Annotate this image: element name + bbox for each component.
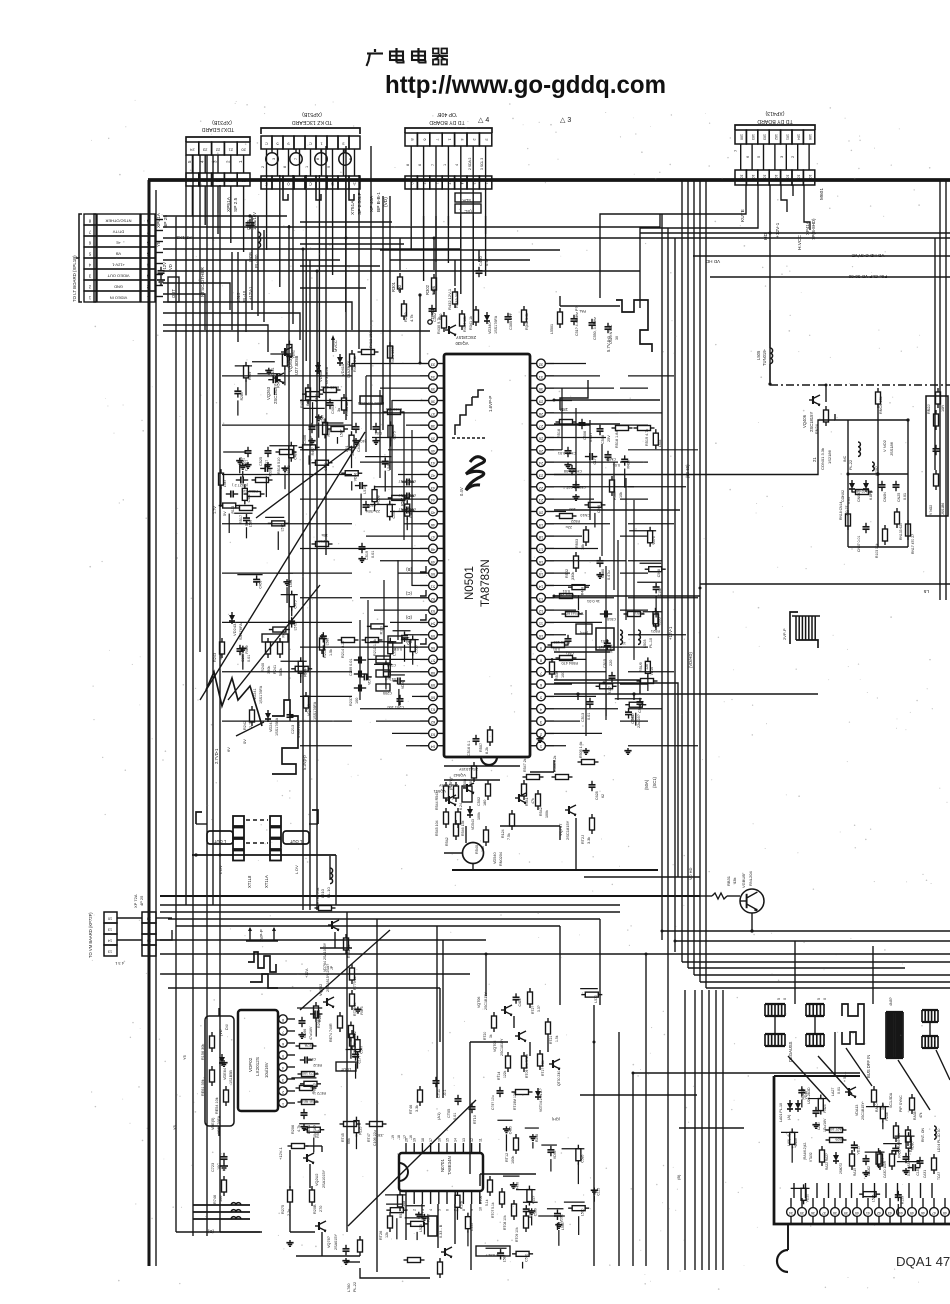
svg-text:8: 8 <box>410 138 415 141</box>
svg-text:44: 44 <box>430 498 435 503</box>
wires under N0701 <box>360 1204 471 1278</box>
svg-text:R547 2k: R547 2k <box>523 758 527 772</box>
svg-text:22u: 22u <box>566 525 572 529</box>
IC N0701 bottom pins <box>405 1191 483 1211</box>
resistor R302 620k <box>425 274 437 295</box>
svg-text:4: 4 <box>429 1209 433 1211</box>
svg-text:8: 8 <box>316 158 320 160</box>
svg-text:R547: R547 <box>276 379 280 387</box>
svg-text:62: 62 <box>430 720 435 725</box>
svg-text:6: 6 <box>539 683 542 688</box>
svg-text:R405 430: R405 430 <box>386 407 402 411</box>
svg-text:C475: C475 <box>294 600 298 608</box>
svg-text:1k 0.01: 1k 0.01 <box>586 599 600 604</box>
svg-text:R219: R219 <box>403 312 408 322</box>
svg-text:1.5k: 1.5k <box>555 1035 559 1042</box>
svg-text:CON02: CON02 <box>841 490 845 502</box>
svg-text:R173: R173 <box>379 626 383 634</box>
svg-text:2SA1015Y: 2SA1015Y <box>459 767 478 772</box>
transistor VQ542 2SA1015Y <box>453 767 478 793</box>
svg-text:RA10: RA10 <box>875 1103 879 1112</box>
clutter components zone B right of IC <box>568 429 666 726</box>
resistor R301 200 <box>391 273 403 293</box>
label 18M <box>559 380 588 412</box>
svg-text:0.01: 0.01 <box>587 713 591 720</box>
svg-text:4: 4 <box>539 708 542 713</box>
svg-text:R540: R540 <box>475 845 479 854</box>
svg-text:30: 30 <box>538 387 543 392</box>
svg-text:7: 7 <box>431 164 435 166</box>
wires bottom right pin drops region <box>619 954 950 1042</box>
svg-text:R781 1k: R781 1k <box>347 944 351 958</box>
svg-text:C115: C115 <box>596 1188 600 1196</box>
svg-text:2: 2 <box>282 1090 284 1094</box>
svg-text:22u/35V: 22u/35V <box>365 509 380 513</box>
board pin row circles <box>787 1198 950 1224</box>
svg-text:37: 37 <box>822 1211 826 1215</box>
svg-text:2 SDA 2: 2 SDA 2 <box>468 157 472 170</box>
svg-text:21: 21 <box>812 457 817 462</box>
svg-text:R238: R238 <box>885 1112 889 1120</box>
IC U-N0501 TA8783N body <box>444 354 530 765</box>
svg-text:100k: 100k <box>545 810 549 818</box>
svg-text:3: 3 <box>148 928 150 932</box>
board inner components cluster <box>779 1072 941 1180</box>
svg-text:1: 1 <box>305 166 309 168</box>
resistor R316 110 <box>226 489 265 498</box>
connector OP40B top row <box>405 128 492 146</box>
svg-text:C525: C525 <box>259 457 263 466</box>
svg-text:VQ76?: VQ76? <box>327 1236 331 1248</box>
hook wires under XP51B <box>283 189 354 200</box>
svg-text:R208: R208 <box>318 539 328 544</box>
svg-text:(50-60): (50-60) <box>685 464 690 478</box>
svg-text:L533: L533 <box>658 439 662 447</box>
component L5401 TCR1023 <box>358 396 384 405</box>
svg-text:5: 5 <box>349 158 353 160</box>
svg-text:L555: L555 <box>470 1223 474 1231</box>
svg-text:1: 1 <box>443 164 447 166</box>
svg-text:Y5: Y5 <box>156 241 161 247</box>
svg-text:3: 3 <box>146 274 149 279</box>
svg-text:VD95: VD95 <box>657 617 661 626</box>
connector XPL1B pin number boxes <box>76 214 155 302</box>
resistor R507 8.2k C516 0.1 <box>467 726 493 756</box>
svg-text:(VD: (VD <box>219 1029 223 1036</box>
svg-text:17: 17 <box>429 1138 433 1142</box>
svg-text:VQ430: VQ430 <box>455 341 469 346</box>
svg-text:330k: 330k <box>571 572 575 580</box>
svg-text:C566: C566 <box>638 705 642 713</box>
wires mid-bottom horizontals <box>580 1042 950 1128</box>
svg-text:R214 8.2k: R214 8.2k <box>341 641 345 658</box>
resistor R407 21k <box>350 350 358 372</box>
svg-text:10R: 10R <box>941 405 945 412</box>
svg-text:0.01: 0.01 <box>837 1087 841 1094</box>
svg-text:H.VCC: H.VCC <box>797 235 803 250</box>
svg-text:R587: R587 <box>400 498 404 506</box>
svg-text:PAL: PAL <box>579 309 586 313</box>
svg-text:VD243: VD243 <box>269 720 273 732</box>
svg-text:L510: L510 <box>320 888 325 898</box>
svg-text:34: 34 <box>789 1211 793 1215</box>
svg-text:C152: C152 <box>658 588 662 596</box>
capacitor C530 22u/35V <box>363 501 381 513</box>
svg-text:TD DY BOARD: TD DY BOARD <box>757 118 793 124</box>
resistor R421 100k <box>388 342 396 364</box>
svg-text:L5501: L5501 <box>550 324 554 334</box>
label CON01 3.3k 1S2186 <box>820 448 832 470</box>
svg-text:KUTE: KUTE <box>740 209 746 222</box>
wires IC left pin stubs extensions <box>352 364 420 746</box>
svg-text:INC: INC <box>843 455 847 462</box>
svg-text:36: 36 <box>811 1211 815 1215</box>
resistor RN133 620 <box>895 508 904 540</box>
svg-text:13: 13 <box>538 597 543 602</box>
svg-text:10: 10 <box>108 917 112 921</box>
svg-text:LOUT: LOUT <box>340 1067 351 1071</box>
svg-text:14: 14 <box>454 1138 458 1142</box>
svg-text:21: 21 <box>228 179 233 184</box>
svg-text:57: 57 <box>430 658 435 663</box>
svg-text:39: 39 <box>844 1211 848 1215</box>
svg-text:VQ542: VQ542 <box>453 773 466 778</box>
svg-text:REJ2: REJ2 <box>313 1063 322 1067</box>
svg-text:C529 NTSC: C529 NTSC <box>609 324 613 344</box>
svg-text:VDF02: VDF02 <box>248 1057 253 1072</box>
box OUT <box>168 277 179 302</box>
svg-text:5: 5 <box>777 998 781 1000</box>
resistor R214 8.2k and R211 1.8k <box>338 638 383 659</box>
svg-text:-19: -19 <box>391 1135 395 1140</box>
svg-text:RT46: RT46 <box>409 1105 413 1114</box>
svg-text:101: 101 <box>763 175 767 181</box>
svg-text:1.5k: 1.5k <box>329 649 333 656</box>
clutter zone G between bottom ICs <box>291 1006 363 1152</box>
svg-text:3: 3 <box>779 155 784 158</box>
svg-text:R517: R517 <box>399 1210 403 1218</box>
caps C580 0.58 row2 <box>564 465 582 475</box>
svg-text:L576: L576 <box>280 524 284 532</box>
svg-text:10u/16V: 10u/16V <box>264 1062 269 1078</box>
svg-text:6: 6 <box>446 1209 450 1211</box>
svg-text:C305 1VF: C305 1VF <box>509 312 513 330</box>
svg-text:23: 23 <box>202 148 207 153</box>
resistor R508 560 <box>463 762 477 788</box>
svg-text:VD62: VD62 <box>291 350 295 359</box>
resistor R502 330k C580 0.47u <box>563 552 611 593</box>
svg-text:R237: R237 <box>349 697 353 706</box>
resistor R213 1.5k <box>320 634 334 658</box>
svg-text:34: 34 <box>147 939 151 943</box>
svg-text:R206: R206 <box>291 1125 295 1134</box>
component C551 group small box <box>553 624 592 655</box>
svg-text:C291: C291 <box>881 1158 885 1166</box>
svg-text:TO LT BOARD (XPL1B): TO LT BOARD (XPL1B) <box>72 255 77 302</box>
svg-text:7: 7 <box>146 230 149 235</box>
svg-text:LX2012S: LX2012S <box>255 1057 260 1076</box>
svg-text:RT1? 6.8k: RT1? 6.8k <box>541 1060 545 1076</box>
svg-text:3: 3 <box>148 950 150 954</box>
connector XPL1B label boxes <box>94 214 140 302</box>
svg-text:2.7VD-1: 2.7VD-1 <box>214 748 219 764</box>
svg-text:2: 2 <box>88 285 91 290</box>
resistor RN17 470 27 <box>906 520 916 554</box>
svg-text:L519: L519 <box>363 486 367 494</box>
resistor R518 1.84 R519 4.7k pair <box>612 426 655 449</box>
resistor R518 mid right <box>556 420 577 439</box>
svg-text:R483: R483 <box>631 713 635 721</box>
clutter zone H below N0701 <box>385 1191 474 1246</box>
svg-text:RT20: RT20 <box>483 1032 487 1040</box>
svg-text:1: 1 <box>88 296 91 301</box>
svg-text:13: 13 <box>462 1138 466 1142</box>
crystal filter cluster above IC right <box>550 296 620 344</box>
svg-text:4P 25: 4P 25 <box>139 895 144 906</box>
caps CN0N CN25 0.01 <box>879 481 908 502</box>
resistor R237 100 C205 <box>349 684 392 706</box>
wires bottom-left transistor cluster <box>290 1146 360 1256</box>
svg-text:SP 2.5: SP 2.5 <box>233 197 239 212</box>
svg-text:6: 6 <box>88 241 91 246</box>
svg-text:100k: 100k <box>511 1156 515 1164</box>
svg-text:3u: 3u <box>337 408 341 412</box>
svg-text:RE54 10k: RE54 10k <box>215 1097 219 1114</box>
svg-text:R5U9: R5U9 <box>639 662 643 672</box>
wires lower mid connections <box>160 855 600 1232</box>
resistor R341 1k diode VD340 <box>469 306 498 334</box>
comb leader diagonals <box>788 1048 950 1110</box>
resistor R540 18k transistor VQ540 <box>463 826 504 866</box>
label 16V 330u C408 <box>345 443 361 456</box>
svg-text:17: 17 <box>538 547 543 552</box>
svg-text:104: 104 <box>797 175 801 181</box>
capacitor C302 680 / C022 <box>429 305 444 322</box>
svg-text:5: 5 <box>146 252 149 257</box>
svg-text:XT1LA: XT1LA <box>264 875 269 888</box>
svg-text:36: 36 <box>430 399 435 404</box>
svg-text:13: 13 <box>108 950 112 954</box>
svg-text:XT1L8: XT1L8 <box>247 875 252 888</box>
svg-text:C51? 4.43MHz P?: C51? 4.43MHz P? <box>575 307 579 336</box>
svg-text:103: 103 <box>751 175 755 181</box>
svg-text:RN133 620: RN133 620 <box>899 523 903 540</box>
svg-text:2SA1015Y: 2SA1015Y <box>322 1169 326 1188</box>
svg-text:C506: C506 <box>583 431 587 440</box>
svg-text:6: 6 <box>146 241 149 246</box>
label MVCC arrow <box>331 335 338 352</box>
label Y5 left <box>172 1054 187 1130</box>
svg-text:2: 2 <box>790 155 795 158</box>
svg-text:RT26: RT26 <box>379 1231 383 1240</box>
svg-text:VD543: VD543 <box>471 819 475 830</box>
svg-text:46: 46 <box>430 523 435 528</box>
svg-text:12: 12 <box>538 609 543 614</box>
resistor RN2J 10R far right <box>927 388 945 414</box>
components right of VDF02 pins <box>296 1002 327 1138</box>
svg-text:LA01 PL-10: LA01 PL-10 <box>779 1103 783 1122</box>
resistor RT26 12k <box>379 1212 393 1240</box>
svg-text:(C): (C) <box>405 591 412 596</box>
svg-text:VDA13: VDA13 <box>855 1105 859 1116</box>
svg-text:L567: L567 <box>321 415 325 423</box>
svg-text:8.2k: 8.2k <box>485 747 489 754</box>
svg-text:7: 7 <box>294 158 298 160</box>
wires IC left pins long to bundle <box>222 376 352 746</box>
waveform square pulse 5.3Vp-p <box>272 700 307 774</box>
svg-text:0.01: 0.01 <box>563 589 570 593</box>
svg-text:VQE62: VQE62 <box>319 984 323 996</box>
connector XP31B top row <box>186 137 250 155</box>
box outline around VDF02 left components <box>205 1016 234 1126</box>
component L503 PL-10 <box>638 630 653 648</box>
svg-text:0: 0 <box>823 998 827 1000</box>
svg-text:R166: R166 <box>318 1014 322 1022</box>
crystal block dashes and wires <box>192 810 336 857</box>
svg-text:PL-22: PL-22 <box>849 460 853 470</box>
svg-text:RN0204: RN0204 <box>499 852 503 866</box>
svg-text:R544 R543: R544 R543 <box>435 792 439 810</box>
svg-text:2SC1815Y: 2SC1815Y <box>456 335 476 340</box>
svg-text:R521: R521 <box>651 629 660 633</box>
svg-text:TRF5418D: TRF5418D <box>565 611 584 615</box>
svg-text:1SS176FA: 1SS176FA <box>275 717 279 736</box>
svg-text:L547: L547 <box>223 479 227 487</box>
IC N0501 internal staircase waveform 1.6VP-P <box>452 390 493 438</box>
wires top connector drops <box>192 175 485 398</box>
svg-text:R285: R285 <box>240 392 244 400</box>
svg-text:43: 43 <box>430 486 435 491</box>
svg-text:2: 2 <box>413 1209 417 1211</box>
svg-text:C210: C210 <box>315 394 319 402</box>
svg-text:18: 18 <box>538 535 543 540</box>
svg-text:C205: C205 <box>383 691 392 695</box>
svg-text:47: 47 <box>430 535 435 540</box>
svg-text:TA8E34N: TA8E34N <box>447 1156 452 1175</box>
svg-text:4.7k: 4.7k <box>297 1125 301 1132</box>
svg-text:R522: R522 <box>571 519 580 523</box>
connector KP72F boxes <box>104 894 172 966</box>
svg-text:DQA1 47: DQA1 47 <box>896 1254 950 1269</box>
ground symbols scattered <box>220 438 909 1264</box>
transistor VQ706 cluster <box>477 988 541 1040</box>
svg-text:180: 180 <box>483 800 487 806</box>
waveform gate pulse shape <box>842 1004 864 1044</box>
resistor R529 100 <box>548 640 571 648</box>
svg-text:-18: -18 <box>397 1135 401 1140</box>
svg-text:60: 60 <box>430 695 435 700</box>
resistor RN24 3.3k <box>815 406 829 434</box>
svg-text:R301: R301 <box>391 281 396 292</box>
clutter components zone E board <box>781 1086 920 1216</box>
resistor R530 100 vertical <box>550 658 566 680</box>
svg-text:CM0B: CM0B <box>605 457 616 461</box>
svg-text:△ 3: △ 3 <box>560 117 571 124</box>
leader line diagonal 3 <box>228 585 320 700</box>
svg-text:4: 4 <box>88 263 91 268</box>
svg-text:MVCC: MVCC <box>333 340 338 352</box>
svg-text:24: 24 <box>538 461 543 466</box>
svg-text:R503: R503 <box>575 539 579 548</box>
svg-text:R448: R448 <box>580 587 584 595</box>
capacitor C527 label <box>231 477 272 488</box>
svg-text:27: 27 <box>538 424 543 429</box>
svg-text:TD DY BOARD: TD DY BOARD <box>429 119 465 125</box>
svg-text:15: 15 <box>446 1138 450 1142</box>
svg-text:M601: M601 <box>819 188 825 200</box>
svg-text:R450: R450 <box>281 629 285 637</box>
svg-text:RE7B: RE7B <box>304 1043 314 1047</box>
svg-text:R497: R497 <box>311 447 315 455</box>
svg-text:R434 12k: R434 12k <box>463 316 467 332</box>
svg-text:VTA32: VTA32 <box>809 1152 813 1162</box>
svg-text:100: 100 <box>355 698 359 704</box>
svg-text:C585: C585 <box>580 1155 584 1163</box>
svg-text:(SC: (SC <box>464 209 471 214</box>
waveform small pulses near 1VP-P <box>248 952 278 988</box>
svg-text:4.7k: 4.7k <box>409 314 414 322</box>
waveform staircase mid 5.7V <box>606 300 652 352</box>
svg-text:C406: C406 <box>303 435 307 444</box>
svg-text:/ SDA: / SDA <box>462 198 473 203</box>
svg-text:R558: R558 <box>377 495 381 503</box>
clutter components zone F midleft lower <box>219 452 291 550</box>
svg-text:7: 7 <box>88 230 91 235</box>
IC N0701 top pin labels <box>405 1138 483 1153</box>
svg-text:C582: C582 <box>324 463 328 471</box>
svg-text:RA27 10k: RA27 10k <box>829 1127 844 1131</box>
svg-text:5.1k: 5.1k <box>485 1199 489 1206</box>
svg-text:C568: C568 <box>657 569 661 577</box>
svg-text:JSS186: JSS186 <box>889 441 894 456</box>
svg-text:19: 19 <box>413 1138 417 1142</box>
svg-text:0.47u: 0.47u <box>607 570 611 580</box>
svg-text:R258: R258 <box>535 1134 539 1142</box>
svg-text:40: 40 <box>430 449 435 454</box>
svg-text:CH20 0.58: CH20 0.58 <box>564 469 582 473</box>
svg-text:20: 20 <box>538 510 543 515</box>
svg-text:200: 200 <box>397 284 402 292</box>
transistor VQ263 2SC1815Y <box>266 373 284 404</box>
svg-text:V NO2: V NO2 <box>929 505 933 515</box>
coil L5102 right small <box>872 462 879 476</box>
resistor ladder RT06 RT07 RT08 RT09 <box>479 1174 536 1242</box>
wire dash-dot horizontal <box>770 384 950 386</box>
svg-text:C508: C508 <box>601 435 605 444</box>
svg-text:CN0N: CN0N <box>883 492 887 502</box>
svg-text:4: 4 <box>460 138 465 141</box>
svg-text:L OUT: L OUT <box>213 839 226 844</box>
svg-text:RN17 470 27: RN17 470 27 <box>911 534 915 554</box>
svg-text:R496: R496 <box>515 1182 519 1190</box>
svg-text:8: 8 <box>539 658 542 663</box>
svg-text:C556: C556 <box>415 645 419 653</box>
svg-text:9: 9 <box>327 166 331 168</box>
svg-text:64: 64 <box>430 745 435 750</box>
svg-text:1SS176FA: 1SS176FA <box>494 315 498 334</box>
svg-text:P6c CLP VD 50-60: P6c CLP VD 50-60 <box>848 274 887 279</box>
svg-text:TUN019-: TUN019- <box>762 348 767 366</box>
svg-text:220: 220 <box>609 660 613 666</box>
svg-text:TDXJ EDARD: TDXJ EDARD <box>201 126 234 132</box>
resistor R509 12k <box>637 662 658 683</box>
capacitor C815 100u/16V <box>246 212 258 230</box>
components left of VDF02 <box>201 1023 233 1134</box>
svg-text:6.8k: 6.8k <box>306 399 310 406</box>
coil L510 PL-10 <box>320 868 333 898</box>
capacitor C208 0.01 row2 <box>349 656 396 676</box>
connector OP40B header label <box>429 111 465 125</box>
